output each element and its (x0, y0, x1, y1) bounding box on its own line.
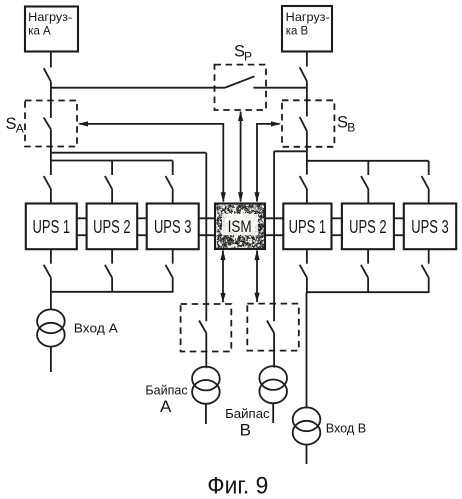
label S_P (234, 43, 252, 64)
control arrow ISM to S_P (double headed vertical) (238, 111, 243, 202)
wire bypass B switch to transformer (273, 333, 275, 368)
switch below load A (44, 68, 51, 81)
wire below bypass B transformer (272, 403, 274, 423)
bypass B dashed box (247, 304, 298, 351)
wire below left UPS 1 (50, 249, 52, 264)
drop to right UPS 2 (367, 161, 369, 175)
wire right UPS 3 switch to bottom bus (428, 278, 430, 293)
svg-text:ка B: ка B (286, 24, 309, 38)
switch below right UPS 1 (300, 265, 307, 278)
svg-text:UPS 3: UPS 3 (154, 217, 192, 237)
wire below transformer A (50, 347, 52, 372)
switch above right UPS 2 (361, 176, 368, 189)
wire down to input transformer A (50, 292, 52, 310)
feeder wire down to bypass B (273, 151, 275, 321)
right UPS input bus (307, 160, 429, 162)
svg-text:Нагруз-: Нагруз- (28, 10, 72, 24)
svg-text:UPS 1: UPS 1 (33, 217, 71, 237)
left UPS input bus (51, 160, 173, 162)
connector UPS2-UPS3 left (double line) (137, 218, 147, 235)
left bottom bus (51, 291, 173, 293)
wire right UPS 1 switch to bottom bus (306, 278, 308, 293)
UPS 3 (right) (404, 204, 456, 250)
feeder wire down to bypass A (205, 153, 207, 322)
wire below transformer B (306, 445, 308, 464)
wire bypass A switch to transformer (205, 333, 207, 368)
switch above left UPS 2 (105, 176, 112, 189)
control arrow ISM to bypass B (double headed) (254, 250, 259, 303)
transformer Вход B (293, 407, 321, 444)
ISM box (stippled) (215, 204, 265, 250)
switch above right UPS 1 (300, 176, 307, 189)
wire left UPS 2 switch to bottom bus (111, 278, 113, 293)
label Байпас B (225, 406, 270, 439)
UPS 3 (left) (147, 204, 199, 250)
svg-text:Фиг. 9: Фиг. 9 (207, 473, 268, 499)
switch below left UPS 1 (44, 265, 51, 278)
switch S_B dashed box (282, 100, 334, 147)
UPS 1 (left) (26, 204, 77, 250)
transformer Байпас A (192, 367, 220, 404)
transformer Вход A (37, 309, 65, 346)
load box B (Нагрузка B) (282, 6, 332, 52)
svg-text:A: A (16, 122, 24, 136)
svg-text:Вход B: Вход B (326, 420, 367, 435)
wire into right UPS 1 (306, 189, 308, 204)
svg-text:UPS 3: UPS 3 (411, 217, 449, 237)
connector UPS2-UPS3 right (double line) (394, 218, 404, 235)
wire from load B down to switch (306, 52, 308, 67)
drop to left UPS 2 (111, 161, 113, 176)
wire left UPS 1 switch to bottom bus (50, 278, 52, 293)
svg-text:ка A: ка A (28, 24, 51, 38)
svg-text:B: B (347, 120, 355, 134)
label Байпас A (145, 383, 188, 416)
control arrow ISM to S_B (double headed L) (254, 121, 281, 202)
switch above left UPS 3 (166, 176, 173, 189)
svg-text:P: P (244, 50, 252, 64)
connector ISM-UPS1 right (double line) (265, 218, 284, 235)
svg-text:Вход A: Вход A (74, 321, 118, 336)
switch inside bypass A box (199, 321, 206, 334)
wire below left UPS 2 (111, 249, 113, 264)
UPS 2 (right) (342, 204, 394, 250)
UPS 1 (right) (283, 204, 331, 250)
wire S_B down to junction (306, 131, 308, 174)
wire into left UPS 1 (50, 189, 52, 204)
switch S_A dashed box (25, 101, 77, 147)
wire below right UPS 1 (306, 249, 308, 264)
right bottom bus (307, 291, 429, 293)
switch below left UPS 2 (105, 265, 112, 278)
control arrow ISM to S_A (double headed L) (78, 121, 226, 202)
wire load A switch to S_A box (50, 82, 52, 119)
wire load B switch to S_B box (306, 81, 308, 116)
svg-text:A: A (160, 397, 172, 416)
tie bus from S_P to load B wire (254, 87, 308, 89)
connector UPS1-UPS2 right (double line) (332, 218, 342, 235)
transformer Байпас B (259, 366, 287, 403)
drop to right UPS 3 (428, 161, 430, 175)
right feeder junction to bypass B (274, 150, 307, 152)
connector UPS1-UPS2 left (double line) (77, 218, 87, 235)
switch blade inside S_B (300, 117, 307, 131)
wire down to input transformer B (306, 292, 308, 408)
svg-text:UPS 2: UPS 2 (349, 217, 387, 237)
tie bus from load A wire to S_P (51, 87, 225, 89)
wire below bypass A transformer (205, 404, 207, 424)
switch S_P dashed box (215, 65, 267, 110)
wire into right UPS 3 (428, 189, 430, 204)
switch below load B (300, 67, 307, 81)
switch inside bypass B box (267, 321, 274, 334)
wire S_A down to bus (50, 129, 52, 175)
svg-text:B: B (240, 421, 251, 440)
bypass A dashed box (181, 304, 232, 352)
switch below right UPS 2 (361, 265, 368, 278)
wire left UPS 3 switch to bottom bus (172, 278, 174, 293)
svg-text:ISM: ISM (228, 217, 252, 236)
switch blade inside S_A (44, 118, 51, 130)
switch above right UPS 3 (422, 176, 429, 189)
control arrow ISM to bypass A (double headed) (220, 250, 225, 303)
switch below left UPS 3 (166, 265, 173, 278)
load box A (Нагрузка A) (25, 7, 78, 52)
svg-text:Байпас: Байпас (225, 406, 270, 421)
wire right UPS 2 switch to bottom bus (367, 278, 369, 293)
wire into right UPS 2 (367, 189, 369, 204)
label S_A (6, 115, 24, 136)
UPS 2 (left) (87, 204, 138, 250)
switch above left UPS 1 (44, 176, 51, 189)
open switch blade inside S_P (225, 76, 254, 87)
wire below right UPS 2 (367, 249, 369, 264)
svg-text:Нагруз-: Нагруз- (286, 10, 330, 24)
wire below right UPS 3 (428, 249, 430, 264)
wire below left UPS 3 (172, 249, 174, 264)
wire from load A down to switch (50, 52, 52, 68)
wire into left UPS 3 (172, 189, 174, 204)
drop to left UPS 3 (172, 161, 174, 176)
label S_B (337, 114, 355, 135)
svg-text:Байпас: Байпас (145, 383, 188, 398)
svg-text:UPS 1: UPS 1 (289, 217, 327, 237)
svg-text:UPS 2: UPS 2 (93, 217, 131, 237)
switch below right UPS 3 (422, 265, 429, 278)
connector UPS3-ISM (double line) (199, 218, 216, 235)
wire into left UPS 2 (111, 189, 113, 204)
left bus to bypass feeder (51, 152, 206, 154)
